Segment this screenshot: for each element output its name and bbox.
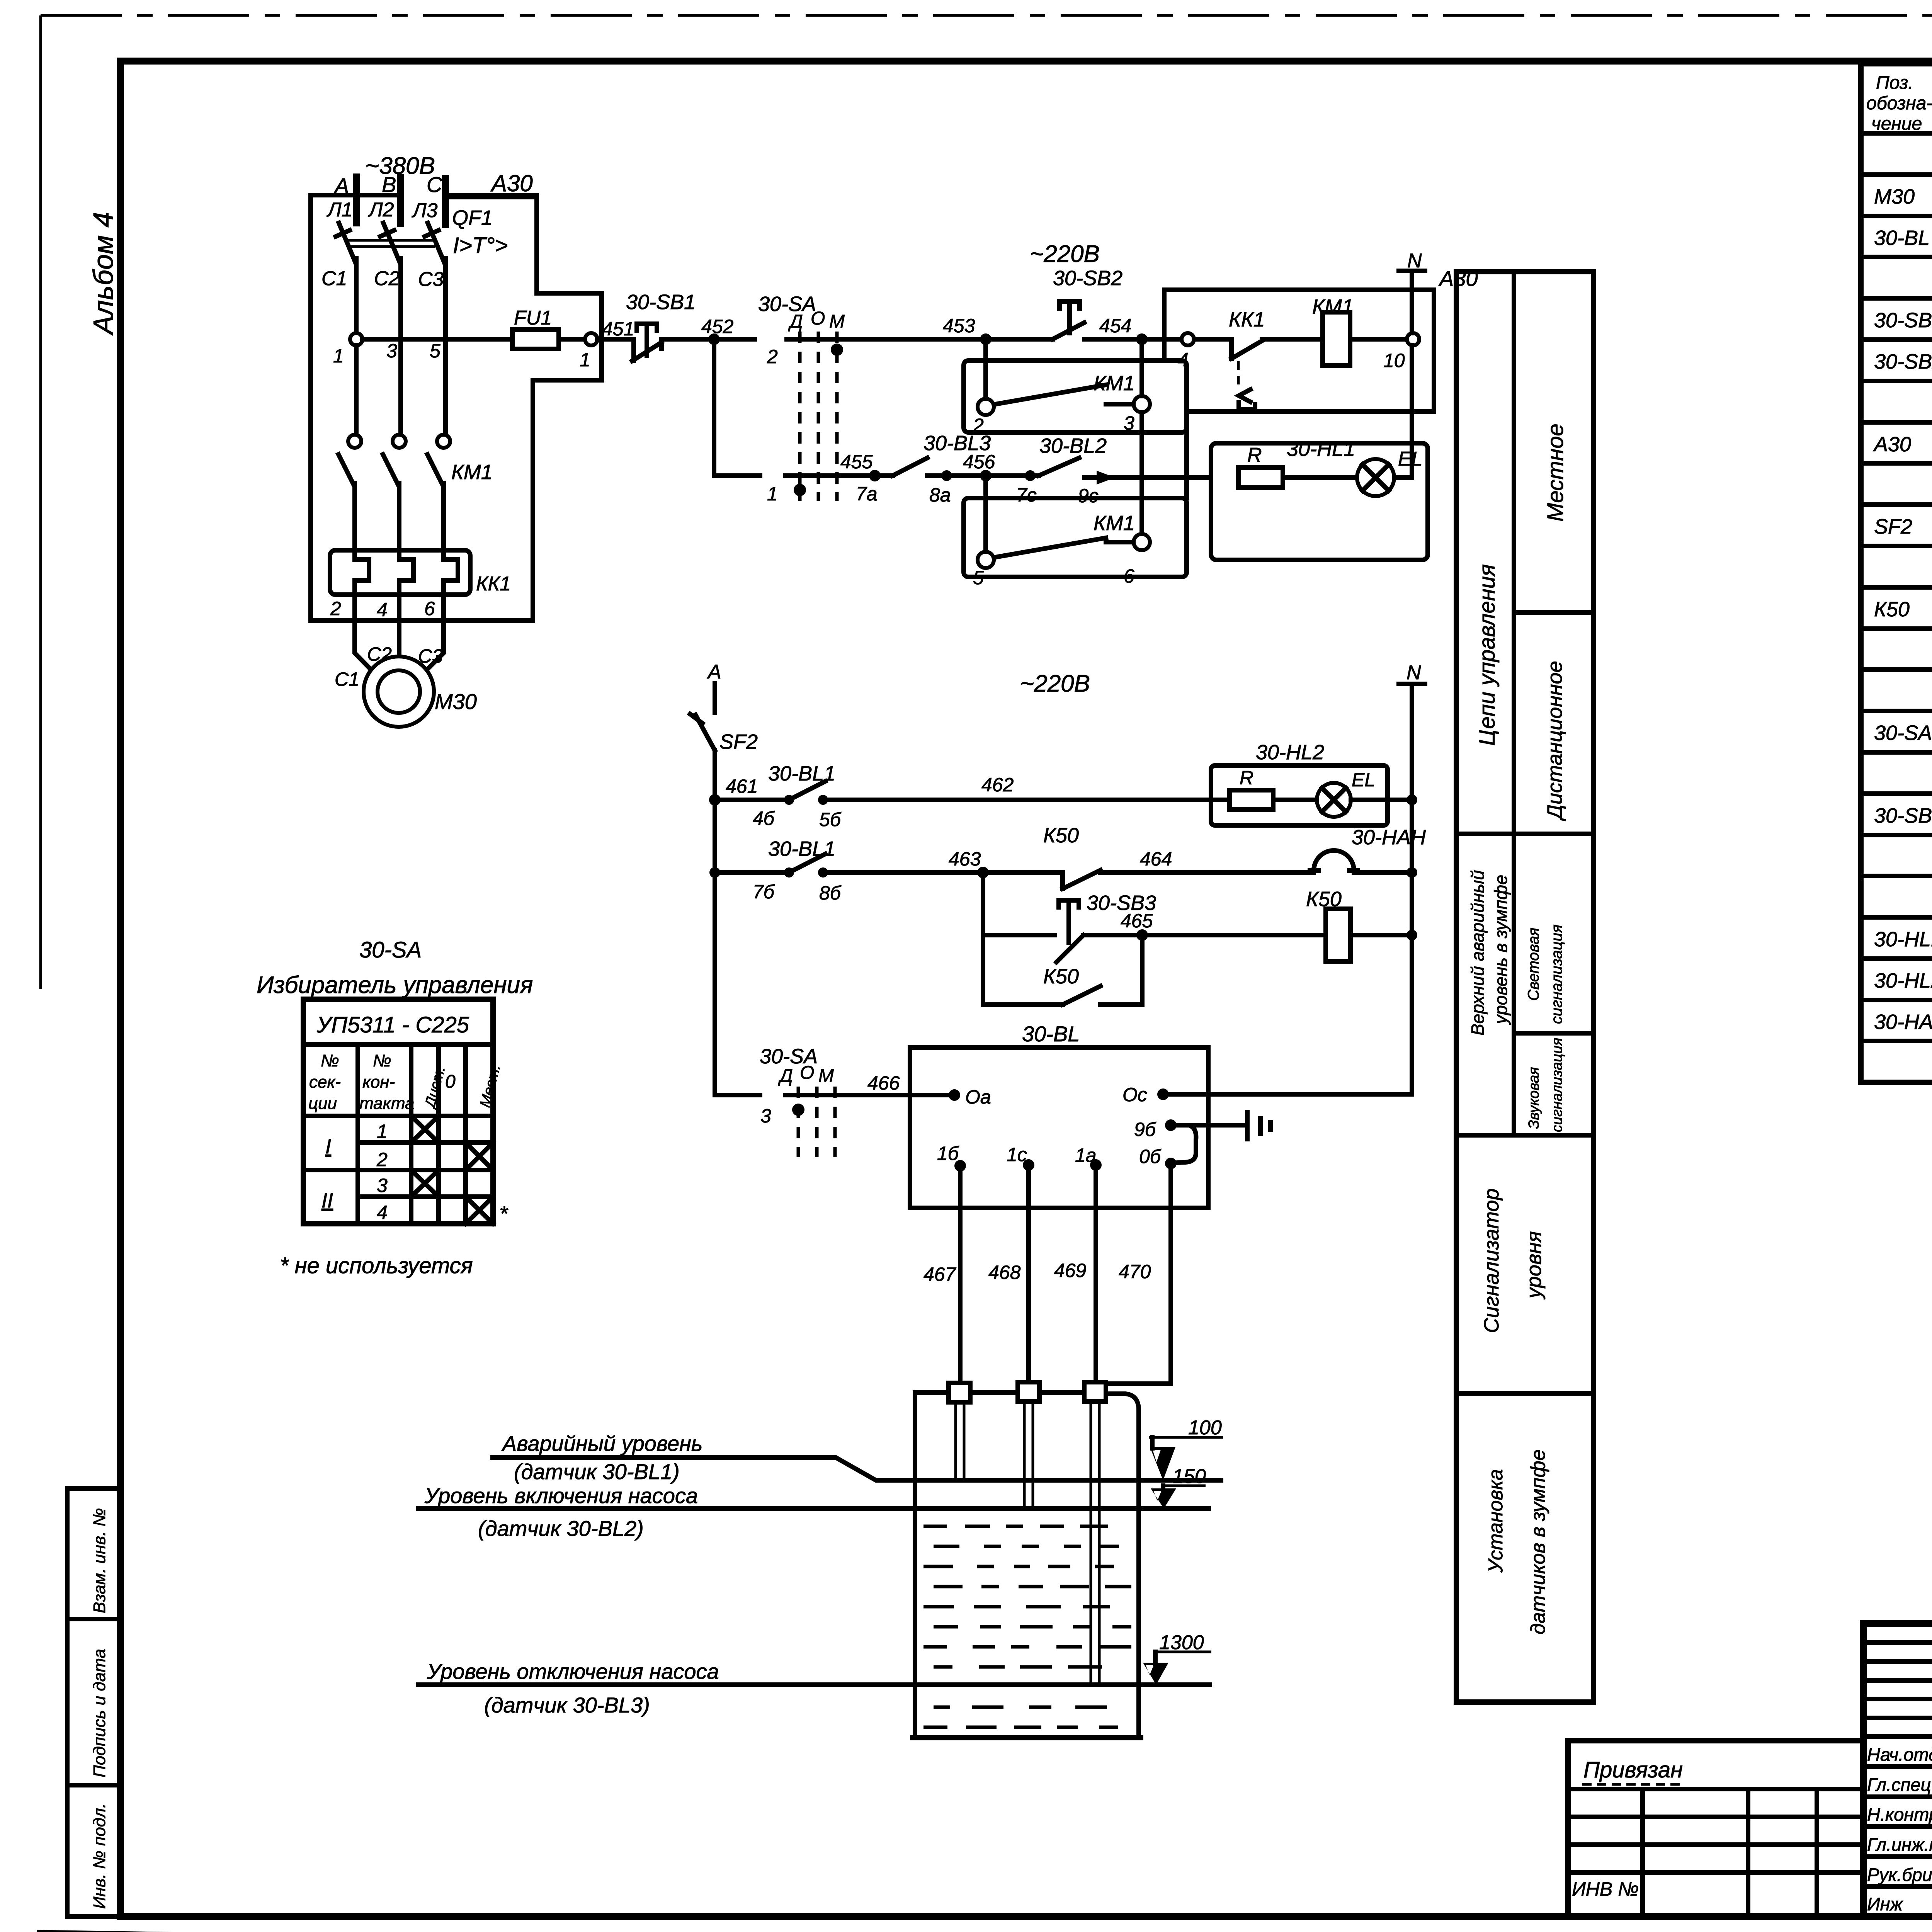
table row Пульт П2 xyxy=(1861,676,1932,711)
svg-text:30-HL1: 30-HL1 xyxy=(1874,928,1932,951)
phase bus B xyxy=(397,178,404,224)
table row ТУ16-524. 074-75 xyxy=(1861,752,1932,794)
wire fuse to terminal xyxy=(559,337,585,342)
svg-text:2: 2 xyxy=(376,1149,388,1170)
svg-text:EL: EL xyxy=(1398,448,1423,470)
node 452 xyxy=(708,333,720,345)
upper-left revision grid xyxy=(1863,1643,1932,1718)
svg-text:3: 3 xyxy=(386,340,397,362)
table row Iр-6,3А 3,5Iн, ТУ16-522.13 xyxy=(1861,546,1932,587)
table row Выключатель КЕ011УЗ xyxy=(1861,794,1932,835)
svg-text:30-SA: 30-SA xyxy=(359,937,422,963)
КК1 trip linkage dashed xyxy=(1237,361,1240,388)
svg-text:М30: М30 xyxy=(435,689,477,714)
table row Станция управления Б5130-357 xyxy=(1861,422,1932,463)
staff rows xyxy=(1863,1734,1932,1739)
tank top plate xyxy=(915,1393,1139,1738)
svg-text:М: М xyxy=(829,311,845,332)
svg-text:QF1: QF1 xyxy=(452,206,493,230)
outer sheet border bottom xyxy=(37,1931,1932,1932)
svg-text:чение: чение xyxy=(1871,114,1922,134)
left margin stamp box Взам. инв. № xyxy=(67,1488,121,1619)
svg-text:Д: Д xyxy=(788,311,803,332)
terminal circle 10 xyxy=(1407,333,1419,345)
svg-text:SF2: SF2 xyxy=(1874,515,1912,538)
connector between aux boxes xyxy=(1184,412,1189,498)
svg-text:30-SA: 30-SA xyxy=(1874,721,1932,745)
svg-text:30-SB2: 30-SB2 xyxy=(1874,350,1932,373)
svg-text:469: 469 xyxy=(1054,1260,1086,1281)
svg-text:Местное: Местное xyxy=(1543,423,1568,522)
band frame xyxy=(1456,272,1594,1702)
svg-text:* не используется: * не используется xyxy=(280,1253,473,1278)
svg-text:10: 10 xyxy=(1383,350,1405,371)
svg-text:4: 4 xyxy=(377,599,388,621)
svg-text:Инж: Инж xyxy=(1867,1894,1903,1914)
fuse FU1 xyxy=(512,330,559,349)
svg-text:Сигнализатор: Сигнализатор xyxy=(1480,1189,1503,1333)
svg-text:8а: 8а xyxy=(929,484,951,506)
left margin stamp box Подпись и дата xyxy=(67,1619,121,1785)
header cell УП5311-С225 xyxy=(303,1042,493,1047)
svg-text:I>Т°>: I>Т°> xyxy=(453,233,508,258)
svg-text:кон-: кон- xyxy=(362,1073,395,1092)
X marks xyxy=(411,1116,439,1143)
svg-text:1: 1 xyxy=(333,345,344,367)
wire to selector contact 1 xyxy=(714,473,760,478)
svg-text:30-SB1: 30-SB1 xyxy=(1874,309,1932,332)
svg-text:FU1: FU1 xyxy=(514,307,552,329)
svg-text:(датчик 30-ВL3): (датчик 30-ВL3) xyxy=(484,1693,650,1717)
water hatching xyxy=(923,1526,1131,1727)
svg-text:1: 1 xyxy=(767,483,778,505)
table row Щит Щ1 xyxy=(1861,387,1932,422)
svg-text:А30: А30 xyxy=(490,170,533,196)
table row ЯС12011У2 xyxy=(1861,959,1932,1000)
sensor wire 468 xyxy=(1026,1165,1031,1382)
svg-text:ИНВ №: ИНВ № xyxy=(1572,1878,1639,1900)
svg-text:1: 1 xyxy=(580,349,590,371)
svg-text:С3: С3 xyxy=(418,268,444,291)
svg-text:КК1: КК1 xyxy=(1229,308,1265,331)
svg-text:КМ1: КМ1 xyxy=(1312,295,1354,318)
sensor head 2 xyxy=(1018,1382,1039,1401)
heater element B xyxy=(399,550,413,595)
svg-text:464: 464 xyxy=(1140,848,1172,870)
svg-text:7с: 7с xyxy=(1016,484,1037,506)
phase C down through wire xyxy=(443,339,448,433)
svg-text:КМ1: КМ1 xyxy=(451,461,493,484)
КК1 manual release symbol xyxy=(1239,389,1255,410)
svg-text:Уровень отключения насоса: Уровень отключения насоса xyxy=(427,1659,719,1684)
node 454 xyxy=(1136,333,1148,345)
node 1 terminal circle xyxy=(350,333,362,345)
svg-text:обозна-: обозна- xyxy=(1866,93,1932,114)
svg-text:Звуковая: Звуковая xyxy=(1526,1067,1542,1129)
node 8а xyxy=(941,470,952,481)
svg-text:2: 2 xyxy=(330,598,341,619)
terminal circle 1 (451 side) xyxy=(585,333,597,345)
svg-text:сек-: сек- xyxy=(309,1073,341,1092)
enclosure А30 (control) xyxy=(1164,290,1434,412)
svg-text:455: 455 xyxy=(840,451,873,473)
svg-text:А30: А30 xyxy=(1873,433,1911,456)
contactor KM1 main contact A xyxy=(348,435,361,448)
svg-text:5: 5 xyxy=(430,340,440,362)
breaker QF1 contact A xyxy=(339,223,356,339)
svg-text:466: 466 xyxy=(867,1072,900,1094)
svg-text:30-HL2: 30-HL2 xyxy=(1874,969,1932,992)
selector position dot (M, contact 2) xyxy=(831,344,843,356)
svg-text:30-SB2: 30-SB2 xyxy=(1053,267,1122,290)
svg-text:УП5311 - С225: УП5311 - С225 xyxy=(316,1012,469,1037)
svg-text:О: О xyxy=(800,1063,814,1083)
svg-text:М: М xyxy=(818,1066,834,1086)
svg-text:КК1: КК1 xyxy=(476,573,511,595)
table row ТУ16-425. 047-85 xyxy=(1861,1041,1932,1082)
svg-text:9б: 9б xyxy=(1134,1119,1156,1140)
electrode rod 1 (30-BL1) xyxy=(956,1402,964,1480)
svg-text:9с: 9с xyxy=(1078,485,1099,507)
svg-text:456: 456 xyxy=(963,451,995,473)
svg-text:3: 3 xyxy=(1124,412,1134,434)
svg-text:0б: 0б xyxy=(1139,1146,1162,1167)
table row ТУ25-2408- 0001-86 xyxy=(1861,257,1932,298)
svg-text:Л2: Л2 xyxy=(368,199,394,221)
table row Двигатель ~380В, 15кВт, 29А xyxy=(1861,175,1932,216)
sensor wire 469 xyxy=(1094,1165,1098,1382)
selector contact 1 resumes xyxy=(785,473,875,478)
selector contact 2 resumes xyxy=(787,337,986,342)
svg-text:№: № xyxy=(373,1051,391,1070)
svg-text:Подпись и дата: Подпись и дата xyxy=(90,1649,109,1777)
enclosure А30 (power) xyxy=(311,195,602,621)
wire 454 to terminal 4 xyxy=(1142,337,1182,342)
svg-text:(датчик 30-ВL1): (датчик 30-ВL1) xyxy=(514,1459,680,1484)
svg-text:465: 465 xyxy=(1121,910,1153,932)
svg-text:Рук.бриг: Рук.бриг xyxy=(1867,1864,1932,1885)
motor leads xyxy=(355,595,377,675)
electrode rod 3 (30-BL3) xyxy=(1091,1401,1099,1684)
phase bus C xyxy=(442,179,449,224)
svg-text:А: А xyxy=(707,661,721,683)
terminal circle 4 xyxy=(1182,333,1194,345)
svg-text:С1: С1 xyxy=(321,267,347,290)
svg-text:6: 6 xyxy=(1124,565,1134,587)
outer sheet border top (dash-dot) xyxy=(41,14,1932,17)
svg-text:Привязан: Привязан xyxy=(1583,1757,1683,1782)
svg-text:461: 461 xyxy=(726,776,758,797)
node 7с xyxy=(1025,470,1036,481)
svg-text:Инв. № подл.: Инв. № подл. xyxy=(90,1803,109,1909)
breaker QF1 contact B xyxy=(383,223,401,339)
svg-text:Верхний аварийный: Верхний аварийный xyxy=(1468,870,1488,1036)
svg-text:5б: 5б xyxy=(819,809,842,830)
parts table grid xyxy=(1861,61,1932,66)
vertical 454 down xyxy=(1139,345,1144,534)
level line 1300 (отключения) xyxy=(418,1682,1210,1687)
svg-text:сигнализация: сигнализация xyxy=(1548,925,1565,1024)
svg-text:Л3: Л3 xyxy=(412,199,438,222)
svg-text:30-НАН: 30-НАН xyxy=(1352,826,1426,849)
svg-text:Поз.: Поз. xyxy=(1876,73,1913,93)
svg-text:К50: К50 xyxy=(1043,965,1079,988)
svg-text:К50: К50 xyxy=(1043,824,1079,847)
outer sheet border left xyxy=(39,15,42,989)
svg-text:КМ1: КМ1 xyxy=(1094,372,1135,395)
svg-text:№: № xyxy=(321,1051,339,1070)
svg-text:КМ1: КМ1 xyxy=(1094,512,1135,535)
band mid divider xyxy=(1512,272,1516,1135)
svg-text:Избиратель управления: Избиратель управления xyxy=(257,972,533,998)
svg-text:М30: М30 xyxy=(1874,185,1915,208)
vertical А feed down xyxy=(713,800,717,872)
phase A down to contactor xyxy=(354,345,359,433)
level line 100 (аварийный) xyxy=(493,1458,1221,1480)
svg-text:30-BL2: 30-BL2 xyxy=(1039,434,1107,457)
svg-text:II: II xyxy=(321,1189,333,1212)
svg-text:Ос: Ос xyxy=(1122,1084,1147,1105)
wire Ос to N xyxy=(1163,1092,1412,1097)
svg-text:30-BL: 30-BL xyxy=(1874,226,1930,250)
svg-text:150: 150 xyxy=(1172,1465,1206,1488)
svg-text:такта: такта xyxy=(359,1094,415,1113)
svg-text:N: N xyxy=(1406,662,1421,684)
svg-text:30-BL: 30-BL xyxy=(1022,1022,1080,1046)
selector dashed linkage lines xyxy=(798,332,802,501)
sensor head 3 xyxy=(1084,1382,1106,1401)
sensor wire 467 xyxy=(958,1166,963,1383)
node 461 xyxy=(709,794,721,806)
svg-text:454: 454 xyxy=(1099,315,1131,337)
aux contact box КМ1 (upper) xyxy=(964,361,1187,432)
wire node1 to fuse xyxy=(362,337,512,342)
table row Арматура U 220В, ТУ16-535. xyxy=(1861,876,1932,917)
svg-text:Д: Д xyxy=(778,1066,793,1086)
table row Пост ПКЕ 222-2У2; 1/2, N1-Ц. xyxy=(1861,298,1932,340)
terminal Оа xyxy=(949,1089,960,1101)
table row исполн.4, черн, ТУ16-526. xyxy=(1861,835,1932,876)
svg-text:С1: С1 xyxy=(335,668,359,690)
svg-text:Взам. инв. №: Взам. инв. № xyxy=(90,1508,109,1613)
heater element C xyxy=(444,550,458,595)
node 456 xyxy=(980,470,992,481)
vertical А feed down to selector row 3 xyxy=(713,872,717,1095)
node 465 xyxy=(1136,929,1148,941)
contactor KM1 main contact B xyxy=(393,435,406,448)
table row Звонок ЗВП220-МЛ U~220В xyxy=(1861,1000,1932,1041)
svg-text:уровень в зумпфе: уровень в зумпфе xyxy=(1491,875,1511,1025)
svg-text:7а: 7а xyxy=(856,483,878,505)
svg-text:30-SВ3: 30-SВ3 xyxy=(1874,804,1932,827)
svg-text:8б: 8б xyxy=(819,882,842,904)
svg-text:Световая: Световая xyxy=(1525,928,1542,1001)
band row divider Световая/Звуковая xyxy=(1514,1031,1594,1036)
svg-text:R: R xyxy=(1247,444,1262,466)
svg-text:467: 467 xyxy=(923,1264,957,1285)
tank left wall xyxy=(913,1393,917,1738)
title block outline xyxy=(1863,1624,1932,1917)
svg-text:7б: 7б xyxy=(753,881,775,903)
svg-text:452: 452 xyxy=(701,316,734,337)
svg-text:30-SB1: 30-SB1 xyxy=(626,291,696,314)
contactor KM1 main contact C xyxy=(437,435,450,448)
electrode rod 2 (30-BL2) xyxy=(1024,1401,1033,1507)
table row ЯС12015У2 xyxy=(1861,917,1932,959)
node 5б xyxy=(823,798,1211,802)
svg-text:датчиков в зумпфе: датчиков в зумпфе xyxy=(1527,1449,1549,1634)
svg-text:30-НАН: 30-НАН xyxy=(1874,1010,1932,1034)
phase bus A xyxy=(353,177,360,223)
svg-text:С2: С2 xyxy=(374,267,400,290)
selector position dot (Д, contact 3) xyxy=(792,1104,804,1116)
svg-text:Н.контр.: Н.контр. xyxy=(1867,1804,1932,1825)
svg-text:Гл.инж.пр: Гл.инж.пр xyxy=(1867,1834,1932,1855)
wire coil to terminal 10 xyxy=(1350,337,1407,342)
svg-text:5: 5 xyxy=(973,567,984,588)
svg-text:470: 470 xyxy=(1119,1261,1151,1282)
svg-text:ции: ции xyxy=(308,1094,337,1113)
motor М30 xyxy=(364,656,434,727)
table row Сигнализатор уровня ЭРСУ-ЧУХ xyxy=(1861,216,1932,257)
heater element A xyxy=(355,550,369,595)
jumper 9б to 0б xyxy=(1171,1125,1196,1163)
wire 452 to selector contact 2 xyxy=(714,337,755,342)
svg-text:2: 2 xyxy=(767,346,778,367)
svg-text:~220В: ~220В xyxy=(1030,241,1100,267)
table row ТУ16-523. 457-80 xyxy=(1861,629,1932,670)
svg-text:453: 453 xyxy=(943,315,975,337)
svg-text:468: 468 xyxy=(988,1262,1021,1283)
vertical drop from 452 xyxy=(712,339,716,476)
svg-text:1300: 1300 xyxy=(1159,1631,1204,1654)
svg-text:0: 0 xyxy=(445,1071,456,1092)
svg-text:30-SA: 30-SA xyxy=(758,293,816,316)
left margin stamp box Инв. № подл. xyxy=(67,1785,121,1917)
svg-text:1: 1 xyxy=(377,1121,388,1142)
node 463 xyxy=(977,867,989,878)
svg-text:100: 100 xyxy=(1188,1417,1222,1439)
node 453 xyxy=(980,333,992,345)
svg-text:Аварийный уровень: Аварийный уровень xyxy=(501,1431,702,1456)
thermal relay КК1 heaters box xyxy=(330,550,470,595)
svg-text:Оа: Оа xyxy=(965,1086,991,1108)
svg-text:SF2: SF2 xyxy=(719,730,758,753)
aux contact box КМ1 (lower) xyxy=(964,498,1187,577)
level line 150 (включения) xyxy=(418,1506,1209,1511)
svg-text:3: 3 xyxy=(377,1175,388,1196)
svg-text:Дистанционное: Дистанционное xyxy=(1543,661,1566,821)
svg-text:30-BL1: 30-BL1 xyxy=(768,837,835,861)
svg-text:4б: 4б xyxy=(753,808,775,829)
attachment table Привязан xyxy=(1568,1741,1863,1917)
svg-text:*: * xyxy=(499,1201,509,1226)
svg-text:уровня: уровня xyxy=(1522,1231,1546,1300)
sensor wire 470 xyxy=(1106,1163,1171,1384)
selector position dot (Д, contact 1) xyxy=(794,484,806,496)
band row divider Местное/Дистанционное xyxy=(1514,610,1594,615)
selector table frame xyxy=(303,999,493,1224)
svg-text:R: R xyxy=(1240,767,1253,789)
svg-text:463: 463 xyxy=(949,848,981,870)
QF1 trip bar (double line) xyxy=(348,240,435,247)
breaker QF1 contact C xyxy=(428,223,446,339)
table row Выключатель АП50Б-2МТУЗ.2 xyxy=(1861,505,1932,546)
column header row xyxy=(303,1114,493,1118)
svg-text:О: О xyxy=(811,308,825,329)
svg-text:462: 462 xyxy=(981,774,1014,796)
wire continuation arrow to lamp xyxy=(1084,475,1211,480)
ground symbol xyxy=(1245,1112,1250,1139)
phase B down through wire xyxy=(398,339,403,433)
svg-text:Установка: Установка xyxy=(1485,1469,1507,1573)
svg-text:Цепи управления: Цепи управления xyxy=(1475,564,1500,746)
vertical 463 down xyxy=(981,872,985,1005)
svg-text:Гл.спец: Гл.спец xyxy=(1867,1774,1931,1795)
table row Реле ПЭ-37-22УЗ, U~220В xyxy=(1861,587,1932,629)
wire 456 to 7с xyxy=(986,473,1039,478)
svg-text:1б: 1б xyxy=(937,1143,959,1164)
data rows xyxy=(358,1140,493,1145)
svg-text:Альбом 4: Альбом 4 xyxy=(88,212,119,336)
svg-text:6: 6 xyxy=(424,598,435,619)
table row N2-Ц,К; 2р "Стоп", ТУ16-526 xyxy=(1861,340,1932,381)
svg-text:Уровень включения насоса: Уровень включения насоса xyxy=(424,1483,698,1508)
table row Переключатель УП5311-С225 xyxy=(1861,711,1932,752)
svg-text:~220В: ~220В xyxy=(1020,670,1090,697)
svg-text:(датчик 30-ВL2): (датчик 30-ВL2) xyxy=(478,1516,644,1541)
sensor head 1 xyxy=(949,1383,970,1402)
svg-text:451: 451 xyxy=(602,318,634,340)
node 455 xyxy=(869,470,881,481)
svg-text:Л1: Л1 xyxy=(327,199,353,221)
table row КМ1-Iн.э27,2...36,8А; QF1-Iр xyxy=(1861,463,1932,505)
svg-text:А30: А30 xyxy=(1438,266,1478,291)
svg-text:К50: К50 xyxy=(1874,598,1910,621)
svg-text:Нач.отд.: Нач.отд. xyxy=(1867,1744,1932,1765)
svg-text:сигнализация: сигнализация xyxy=(1549,1037,1565,1132)
tank bottom xyxy=(913,1735,1141,1740)
svg-text:30-HL2: 30-HL2 xyxy=(1256,741,1324,764)
svg-text:I: I xyxy=(325,1135,331,1158)
svg-text:4: 4 xyxy=(377,1202,388,1223)
table row У механизма xyxy=(1861,139,1932,175)
svg-text:3: 3 xyxy=(760,1105,771,1127)
svg-text:С: С xyxy=(427,172,442,197)
svg-text:EL: EL xyxy=(1352,769,1375,791)
